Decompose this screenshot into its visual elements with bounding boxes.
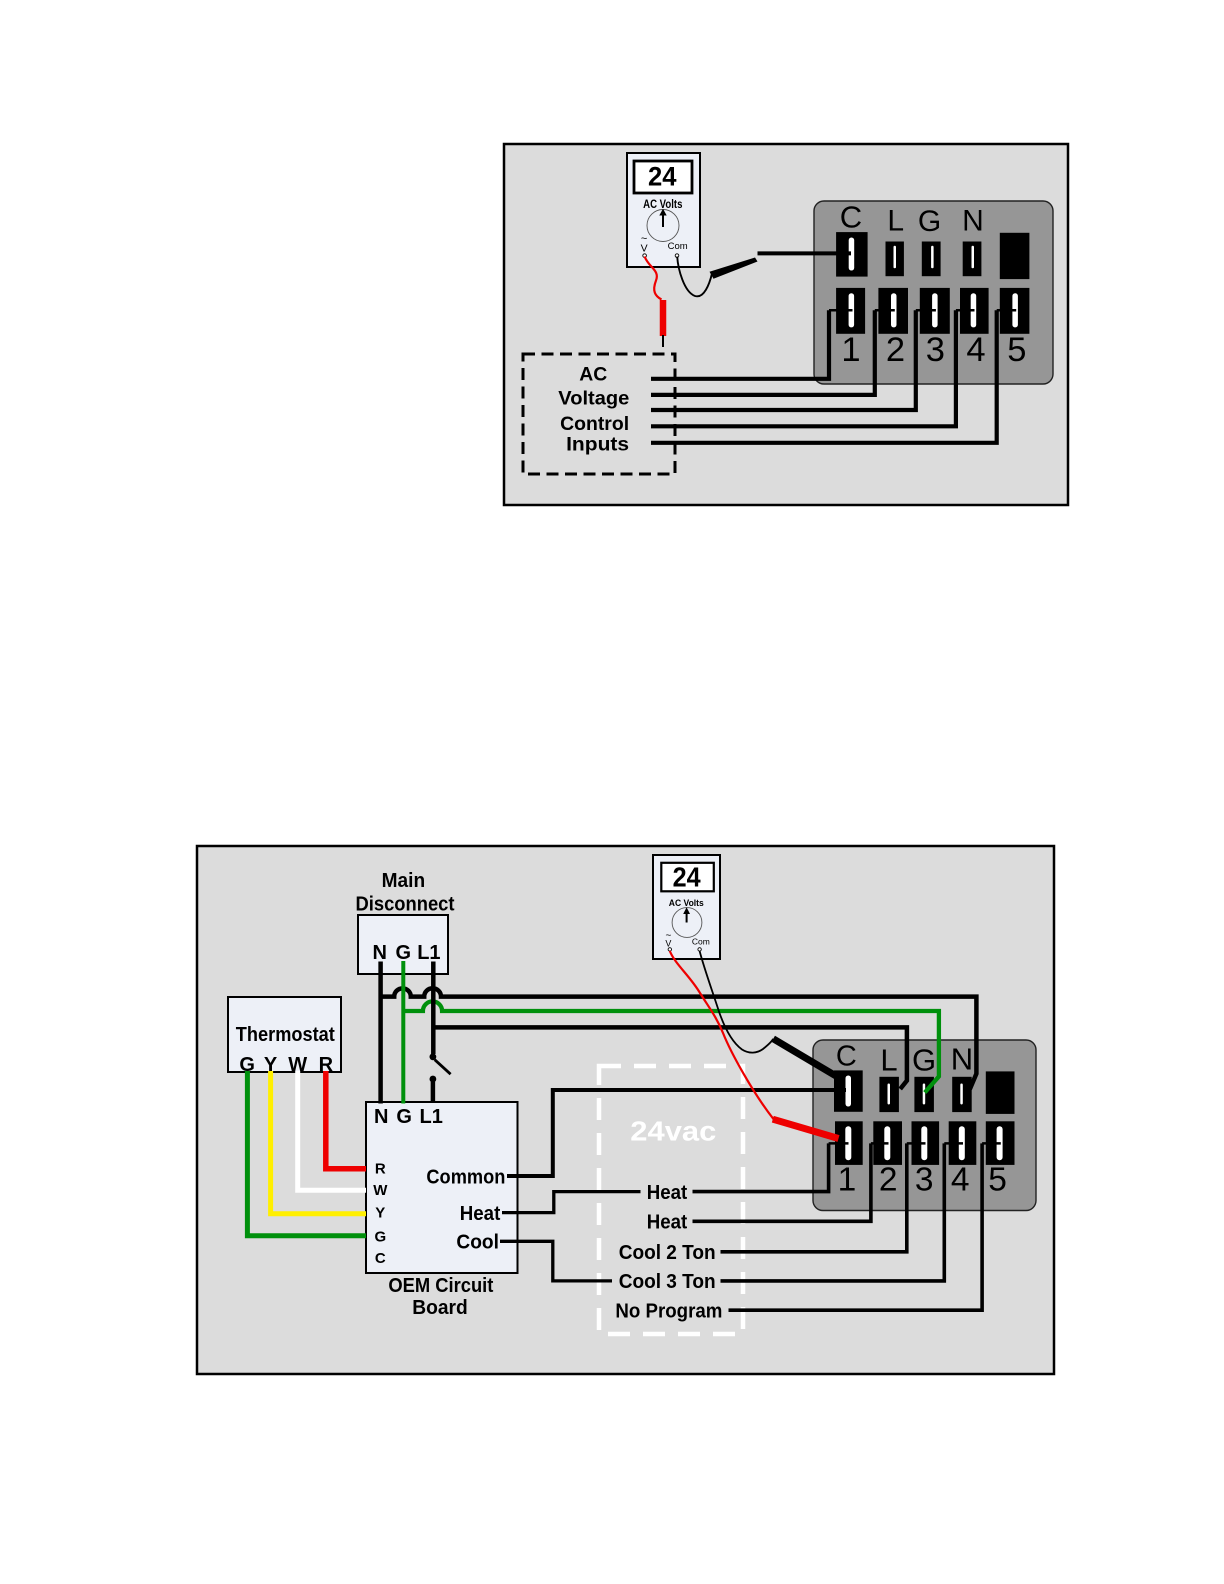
TB2 terminal G <box>914 1077 934 1112</box>
wire: L1 bus to terminal L <box>433 1027 907 1089</box>
label: Main Disconnect <box>356 870 455 916</box>
svg-text:G: G <box>374 1228 386 1245</box>
red probe (bottom) <box>773 1119 839 1138</box>
wire: Cool 3 Ton row to terminal 4 <box>721 1143 964 1281</box>
multimeter M1 Com jack <box>668 241 688 257</box>
svg-text:Disconnect: Disconnect <box>356 894 455 916</box>
svg-text:2: 2 <box>886 331 905 369</box>
TB2 terminal 1 <box>835 1121 863 1165</box>
svg-text:Heat: Heat <box>460 1203 501 1225</box>
wire: switch to OEM L1 <box>431 1080 436 1102</box>
svg-text:4: 4 <box>951 1161 970 1198</box>
svg-text:5: 5 <box>988 1161 1007 1198</box>
multimeter M2 display <box>661 861 714 892</box>
svg-text:Board: Board <box>412 1297 468 1319</box>
svg-text:Voltage: Voltage <box>558 388 629 410</box>
TB1 terminal 2 <box>878 288 908 334</box>
TB2 terminal N <box>952 1077 972 1112</box>
wire: main disconnect L1 down to switch <box>431 962 436 1055</box>
svg-text:V: V <box>665 939 671 949</box>
wire: Cool 2 Ton row to terminal 3 <box>721 1143 926 1251</box>
wire: OEM Cool to Cool 3 Ton row <box>500 1241 612 1281</box>
multimeter M1 V jack <box>641 233 648 257</box>
svg-text:C: C <box>375 1250 386 1267</box>
TB1 terminal L <box>886 242 904 277</box>
svg-text:Heat: Heat <box>647 1182 688 1204</box>
black test lead M2 to black probe <box>700 951 774 1053</box>
multimeter M1 display <box>634 161 692 193</box>
multimeter M2 dial <box>672 907 702 937</box>
TB2 terminal 3 <box>912 1121 940 1165</box>
svg-text:Com: Com <box>692 936 710 946</box>
TB2 terminal L <box>879 1077 899 1112</box>
red test lead M1 V to probe <box>645 257 662 300</box>
svg-text:1: 1 <box>838 1161 857 1198</box>
red test lead M2 to red probe <box>670 951 774 1120</box>
enclosure box (top diagram) <box>504 144 1068 505</box>
svg-text:N: N <box>374 1106 388 1128</box>
svg-text:G: G <box>918 205 941 238</box>
black probe (bottom) <box>773 1039 836 1076</box>
black test lead M1 Com to probe <box>677 257 712 297</box>
TB2 blank terminal <box>986 1071 1015 1114</box>
svg-text:24vac: 24vac <box>630 1115 716 1146</box>
svg-text:Cool: Cool <box>456 1232 499 1254</box>
svg-text:4: 4 <box>966 331 985 369</box>
wire: Heat row 1 to terminal 1 <box>693 1143 849 1191</box>
red probe tip <box>662 335 664 347</box>
svg-text:L1: L1 <box>420 1106 443 1128</box>
TB2 terminal 4 <box>949 1121 977 1165</box>
svg-text:No Program: No Program <box>615 1301 722 1323</box>
wire: thermostat R to OEM R (red) <box>326 1071 366 1169</box>
svg-text:Cool 2 Ton: Cool 2 Ton <box>619 1242 716 1264</box>
wire: No Program row to terminal 5 <box>729 1143 1001 1310</box>
OEM circuit board box <box>366 1102 518 1273</box>
wire: input 5 to terminal 5 <box>651 310 1016 443</box>
svg-text:AC Volts: AC Volts <box>643 197 683 211</box>
wire: thermostat W to OEM W (white) <box>298 1071 366 1190</box>
svg-text:L1: L1 <box>417 942 440 964</box>
svg-text:R: R <box>375 1161 386 1178</box>
TB1 terminal C <box>836 232 868 277</box>
svg-text:OEM Circuit: OEM Circuit <box>388 1275 493 1297</box>
multimeter M1 body <box>627 153 700 267</box>
wire: N bus to terminal N <box>381 988 977 1089</box>
svg-text:N: N <box>951 1042 973 1077</box>
svg-text:3: 3 <box>915 1161 934 1198</box>
svg-text:G: G <box>912 1043 936 1078</box>
svg-text:W: W <box>373 1182 388 1199</box>
wire: input 2 to terminal 2 <box>651 310 895 395</box>
svg-text:5: 5 <box>1007 331 1026 369</box>
svg-text:N: N <box>372 942 386 964</box>
switch S1 <box>430 1053 451 1082</box>
wire: OEM Common to terminal C <box>507 1090 846 1176</box>
wire: main disconnect N down to OEM N <box>378 962 383 1104</box>
multimeter M2 body <box>653 855 720 959</box>
label: Thermostat box <box>228 997 341 1072</box>
svg-text:Control: Control <box>560 413 629 435</box>
label: OEM Circuit Board <box>388 1275 493 1319</box>
dashed box 24vac <box>599 1066 743 1334</box>
wire: black probe to terminal C <box>758 251 852 255</box>
TB2 terminal C <box>834 1070 863 1111</box>
multimeter M1 dial <box>647 209 679 242</box>
svg-text:G: G <box>396 1106 412 1128</box>
TB2 terminal 5 <box>986 1121 1015 1165</box>
multimeter M2 Com jack <box>692 936 710 951</box>
svg-text:Heat: Heat <box>647 1212 688 1234</box>
dashed box: AC Voltage Control Inputs <box>523 354 675 474</box>
svg-text:1: 1 <box>841 331 860 369</box>
svg-text:Com: Com <box>668 241 688 252</box>
svg-text:Cool 3 Ton: Cool 3 Ton <box>619 1271 716 1293</box>
wire: thermostat G to OEM G (green) <box>247 1071 366 1236</box>
wire: thermostat Y to OEM Y (yellow) <box>271 1071 366 1214</box>
svg-text:3: 3 <box>926 331 945 369</box>
svg-text:V: V <box>641 243 648 255</box>
svg-text:G: G <box>396 942 412 964</box>
TB1 blank terminal <box>1000 233 1030 279</box>
svg-text:Y: Y <box>375 1204 385 1221</box>
wire: input 3 to terminal 3 <box>651 310 936 410</box>
black probe <box>710 258 758 279</box>
main disconnect box <box>358 915 448 974</box>
svg-text:24: 24 <box>673 861 702 892</box>
red probe <box>660 300 667 336</box>
svg-text:L: L <box>887 205 904 238</box>
wire: input 4 to terminal 4 <box>651 310 975 426</box>
wire: G bus to terminal G (green) <box>403 1001 939 1092</box>
svg-text:C: C <box>836 1041 857 1073</box>
terminal block TB2 <box>813 1040 1036 1211</box>
svg-text:24: 24 <box>648 162 677 192</box>
svg-text:AC: AC <box>579 364 607 386</box>
wire: Heat row 2 to terminal 2 <box>693 1143 889 1221</box>
wire: input 1 to terminal 1 <box>651 310 853 379</box>
svg-text:L: L <box>880 1042 897 1077</box>
TB1 terminal G <box>922 242 941 277</box>
TB1 terminal 1 <box>836 288 865 334</box>
multimeter M2 V jack <box>665 931 671 952</box>
enclosure box (bottom diagram) <box>197 846 1054 1374</box>
svg-text:2: 2 <box>879 1161 898 1198</box>
svg-text:C: C <box>840 199 862 234</box>
terminal block TB1 <box>814 201 1053 384</box>
svg-text:N: N <box>962 205 984 238</box>
svg-text:Common: Common <box>426 1166 505 1188</box>
svg-text:Main: Main <box>382 870 426 892</box>
TB2 terminal 2 <box>873 1121 902 1165</box>
TB1 terminal 4 <box>960 288 989 334</box>
svg-text:Inputs: Inputs <box>566 434 629 456</box>
TB1 terminal 5 <box>1000 288 1030 334</box>
svg-text:AC Volts: AC Volts <box>669 898 704 908</box>
TB1 terminal N <box>963 242 982 277</box>
svg-text:Thermostat: Thermostat <box>236 1024 335 1046</box>
wire: OEM Heat to Heat row 1 <box>502 1192 641 1213</box>
wire: main disconnect G down to OEM G (green) <box>401 961 405 1104</box>
TB1 terminal 3 <box>920 288 950 334</box>
